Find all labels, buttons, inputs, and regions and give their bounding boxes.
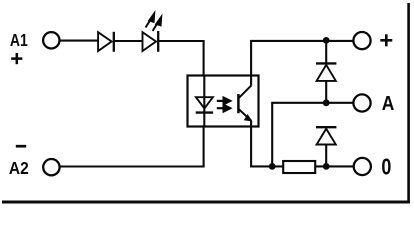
optocoupler internal LED <box>196 76 213 127</box>
suppressor diode V2 (+ to A) <box>316 41 336 103</box>
svg-text:A2: A2 <box>9 158 29 178</box>
label + (output) <box>380 34 392 46</box>
terminal A2 <box>43 159 59 175</box>
optocoupler U1 body <box>188 76 259 127</box>
wire collector to + rail <box>251 41 353 86</box>
border bottom edge <box>2 200 410 203</box>
label minus (input polarity) <box>16 145 26 148</box>
terminal 0 <box>354 158 371 175</box>
svg-text:0: 0 <box>381 155 391 181</box>
wire emitter to resistor <box>251 121 283 167</box>
optocoupler coupling arrows <box>217 98 230 112</box>
wire A rail <box>272 103 353 167</box>
terminal + <box>353 32 370 49</box>
suppressor diode V3 (A to 0) <box>316 127 336 166</box>
wire D1 to LED V1 <box>114 40 142 42</box>
phototransistor Q1 <box>238 86 251 121</box>
LED V1 <box>143 31 159 52</box>
junction at 0 rail <box>323 163 330 170</box>
svg-text:A1: A1 <box>10 30 28 50</box>
svg-text:A: A <box>382 92 395 114</box>
wire resistor to terminal 0 <box>315 165 353 167</box>
wire LED to optocoupler input (top corner) <box>158 41 203 76</box>
resistor R1 <box>283 161 315 173</box>
junction at A rail <box>323 99 330 106</box>
border right edge <box>407 3 410 202</box>
terminal A <box>353 94 370 111</box>
LED V1 emission arrows <box>146 14 162 32</box>
wire A2 to optocoupler input (bottom) <box>60 127 204 167</box>
wire A1 to diode D1 <box>60 40 98 42</box>
junction at + rail <box>323 37 330 44</box>
terminal A1 <box>43 32 59 48</box>
diode D1 <box>98 32 114 52</box>
label + (input polarity) <box>11 53 22 64</box>
junction emitter / A-rail <box>269 163 276 170</box>
